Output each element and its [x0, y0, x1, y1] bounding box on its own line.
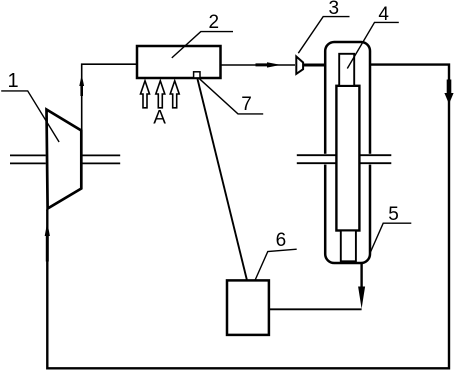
svg-text:3: 3: [329, 0, 340, 19]
svg-text:A: A: [153, 107, 166, 128]
svg-text:5: 5: [388, 204, 399, 225]
svg-text:6: 6: [276, 230, 287, 251]
svg-text:4: 4: [378, 4, 389, 25]
svg-text:2: 2: [209, 12, 220, 33]
svg-text:1: 1: [7, 70, 18, 92]
svg-text:7: 7: [241, 94, 252, 115]
